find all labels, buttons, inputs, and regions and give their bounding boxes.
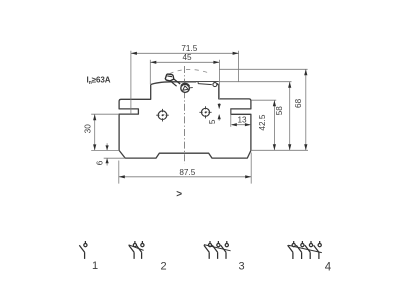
svg-text:2: 2 (161, 260, 167, 272)
svg-text:30: 30 (83, 124, 92, 134)
svg-text:13: 13 (237, 115, 247, 124)
dimension 87.5 (119, 175, 251, 178)
svg-text:45: 45 (182, 53, 192, 62)
switch symbol 3-pole (204, 241, 231, 259)
toggle lever Q (165, 74, 180, 86)
dimension 6 (106, 143, 109, 165)
svg-text:42.5: 42.5 (258, 114, 267, 130)
dimension 13 (231, 109, 251, 127)
svg-text:3: 3 (239, 260, 245, 272)
dimension 45 (150, 61, 219, 64)
switch symbol 1-pole (79, 241, 87, 259)
svg-text:58: 58 (275, 106, 284, 116)
svg-text:4: 4 (325, 262, 332, 274)
pivot screw circle (181, 84, 193, 93)
svg-text:68: 68 (294, 98, 303, 108)
dimension texts (83, 44, 302, 177)
dimension 30 (93, 114, 96, 150)
svg-text:87.5: 87.5 (179, 168, 195, 177)
svg-text:>: > (176, 189, 182, 200)
latch arm (196, 82, 219, 87)
mounting hole left (156, 109, 169, 122)
svg-text:1: 1 (92, 260, 98, 272)
svg-text:6: 6 (95, 160, 104, 165)
switch symbol 4-pole (288, 241, 322, 259)
dimension 58 (288, 82, 291, 151)
svg-text:71.5: 71.5 (181, 44, 197, 53)
toggle lever travel arc (dashed) (170, 69, 210, 73)
dimension 5 (218, 103, 221, 121)
dimension 42.5 (273, 100, 276, 150)
body outline (119, 82, 251, 158)
dimension 68 (304, 69, 307, 150)
dimension 71.5 (131, 52, 239, 55)
svg-text:5: 5 (208, 119, 217, 124)
extension lines (91, 51, 308, 184)
switch symbol 2-pole (129, 241, 144, 259)
mounting hole right (199, 106, 211, 118)
centerline (vertical dash-dot) (183, 66, 185, 164)
svg-text:In≥63A: In≥63A (87, 76, 111, 87)
